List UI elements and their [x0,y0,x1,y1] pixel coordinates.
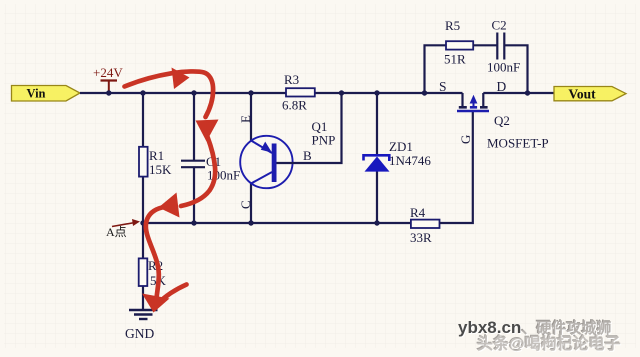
svg-text:100nF: 100nF [487,60,520,75]
svg-text:MOSFET-P: MOSFET-P [487,136,549,151]
junction ZD1 bottom [374,220,379,225]
wire collector rail [143,222,411,224]
svg-text:C: C [238,200,253,209]
svg-text:GND: GND [125,326,154,341]
pin label G [458,135,473,144]
pin label C [238,200,253,209]
pin label E [238,115,253,123]
wire Vin to +24V node [80,92,463,94]
svg-text:Vout: Vout [568,87,596,102]
wire Q1 collector lead [250,184,252,224]
port Vin [12,86,81,102]
junction snubber right [525,90,530,95]
wire snubber left branch [425,45,447,93]
junction R1 top [140,90,145,95]
svg-text:PNP: PNP [312,133,336,148]
pin label B [303,148,312,163]
junction Q1 collector [248,220,253,225]
resistor R4 [410,205,440,245]
wire C1 branch [193,93,195,223]
annotation red current path [125,71,216,303]
svg-text:+24V: +24V [93,65,123,80]
svg-text:B: B [303,148,312,163]
power +24V [93,65,123,93]
diode ZD1 [364,139,432,172]
ground GND [125,310,158,341]
svg-text:R4: R4 [410,205,426,220]
svg-text:R3: R3 [284,72,299,87]
junction snubber left [422,90,427,95]
svg-text:R5: R5 [445,18,460,33]
svg-text:1N4746: 1N4746 [389,153,431,168]
svg-text:E: E [238,115,253,123]
junction +24V node [106,90,111,95]
port Vout [554,87,626,102]
svg-text:Q2: Q2 [494,113,510,128]
wire Q1 emitter lead [250,93,252,141]
svg-text:G: G [458,135,473,144]
watermark [458,317,640,354]
junction base tap [339,90,344,95]
svg-text:A点: A点 [106,225,127,239]
svg-text:R1: R1 [149,148,164,163]
wire R5 to C2 [473,44,496,46]
wire R4 to gate [440,112,473,224]
pin label S [439,79,447,94]
svg-text:15K: 15K [149,162,172,177]
svg-text:C2: C2 [492,18,507,33]
svg-text:D: D [497,79,507,94]
junction C1 bottom [191,220,196,225]
svg-text:33R: 33R [410,230,432,245]
wire Q1 base [277,93,342,163]
svg-text:51R: 51R [444,52,466,67]
svg-text:S: S [439,79,447,94]
svg-text:ZD1: ZD1 [389,139,413,154]
junction node A [140,220,145,225]
wire ZD1 branch [376,93,378,223]
resistor R5 [444,18,473,67]
wire R1 branch [142,93,144,223]
resistor R3 [282,72,315,113]
resistor R1 [139,147,172,177]
junction Q1 emitter [248,90,253,95]
svg-text:6.8R: 6.8R [282,98,307,113]
wire snubber right branch [505,45,528,93]
resistor R2 [139,258,167,288]
transistor Q2 [457,93,549,151]
svg-text:Vin: Vin [27,87,46,101]
junction ZD1 top [374,90,379,95]
transistor Q1 [240,119,335,188]
annotation red arrowheads [142,68,219,313]
capacitor C1 [181,154,240,183]
capacitor C2 [487,18,520,75]
node A label [106,219,140,239]
wire drain to Vout [483,92,554,94]
pin label D [497,79,507,94]
wire R2 branch [142,223,144,310]
junction C1 top [191,90,196,95]
